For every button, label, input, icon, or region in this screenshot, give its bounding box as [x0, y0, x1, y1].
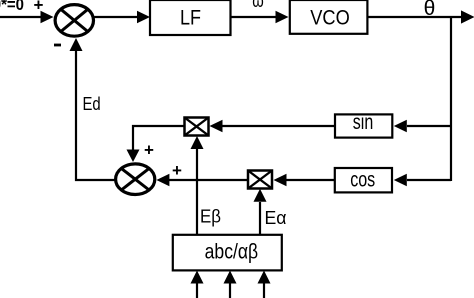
wire phase input b into abc block — [224, 271, 237, 298]
svg-text:VCO: VCO — [310, 7, 350, 30]
svg-text:Ed: Ed — [83, 93, 101, 114]
svg-text:+: + — [172, 161, 182, 180]
wire theta branch to sin — [394, 120, 451, 133]
wire phase input c into abc block — [258, 271, 271, 298]
wire M1 output to summer S2 top input — [127, 126, 185, 162]
wire cos to multiplier M2 — [274, 174, 335, 187]
wire VCO to output — [368, 10, 474, 23]
wire Ealpha from abc block to M2 — [254, 189, 267, 234]
block LF (loop filter) — [150, 0, 231, 35]
svg-text:θ*=0: θ*=0 — [0, 0, 24, 14]
wire S2 output up to S1 minus input (Ed) — [70, 38, 115, 180]
wire feedback branch down from theta node — [450, 16, 452, 181]
block VCO — [290, 0, 368, 34]
wire phase input a into abc block — [191, 271, 204, 298]
node theta-ref label "*=0 +" — [0, 0, 44, 15]
wire sin to multiplier M1 — [210, 120, 335, 133]
multiplier M1 (sin path) — [185, 118, 209, 136]
block abc/alphabeta transform — [173, 235, 282, 271]
svg-text:ω: ω — [252, 0, 264, 12]
svg-text:Eβ: Eβ — [200, 206, 221, 227]
svg-text:cos: cos — [350, 168, 375, 191]
wire LF to VCO — [231, 11, 289, 24]
svg-text:sin: sin — [353, 111, 374, 134]
block cos — [335, 168, 392, 192]
summing junction S1 (phase detector summer) — [55, 5, 93, 37]
svg-text:+: + — [144, 141, 154, 160]
wire reference input into summer S1 — [0, 11, 54, 24]
minus sign at S1 lower input — [54, 44, 61, 47]
wire S1 to LF — [95, 11, 151, 24]
svg-text:abc/αβ: abc/αβ — [205, 241, 259, 264]
wire M2 output to summer S2 right input — [156, 174, 248, 187]
svg-text:LF: LF — [180, 7, 201, 30]
block sin — [335, 111, 392, 138]
summing junction S2 — [116, 164, 155, 195]
svg-text:Eα: Eα — [265, 207, 287, 228]
multiplier M2 (cos path) — [248, 171, 272, 189]
wire theta branch to cos — [394, 174, 451, 187]
wire Ebeta from abc block to M1 — [191, 136, 204, 234]
